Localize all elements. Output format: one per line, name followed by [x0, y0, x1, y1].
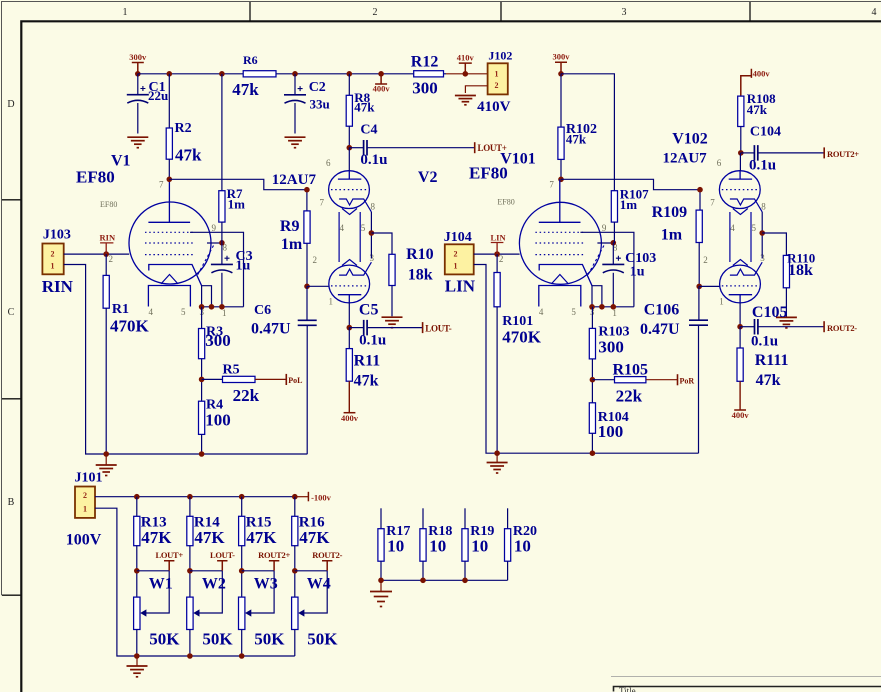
W1 wiper	[146, 571, 169, 613]
V102a plate	[729, 171, 752, 179]
node R2 top	[167, 71, 173, 77]
wire W2 to gnd bus	[189, 630, 191, 657]
V102a grid	[722, 189, 758, 191]
ground R10	[382, 317, 403, 328]
svg-text:300v: 300v	[553, 52, 571, 62]
svg-text:Title: Title	[619, 686, 636, 692]
wire V2b plate to C5 node	[348, 303, 350, 328]
V2 filament marks	[342, 209, 357, 266]
junction bus R1	[103, 451, 109, 457]
svg-text:47K: 47K	[141, 528, 172, 547]
port ROUT2- bar	[823, 321, 825, 332]
wire J103 pin2 to grid	[64, 253, 130, 255]
svg-text:1: 1	[222, 308, 227, 318]
wire R108 to C104 node	[740, 127, 742, 153]
power port 410v	[459, 63, 472, 74]
svg-text:J102: J102	[488, 49, 512, 63]
wire pin8 to pin3	[370, 212, 372, 259]
resistor R109	[696, 210, 702, 242]
wire cathode bus V1	[202, 306, 244, 308]
svg-text:2: 2	[495, 81, 499, 90]
junction gnd bus W1	[134, 653, 140, 659]
svg-text:LOUT-: LOUT-	[210, 550, 235, 560]
junction gnd bus W2	[187, 653, 193, 659]
wire stub R20	[507, 508, 509, 528]
resistor R1	[103, 275, 109, 308]
V102 filament marks	[733, 209, 748, 266]
svg-text:400v: 400v	[753, 68, 771, 78]
ground right channel	[487, 463, 508, 474]
wire C106 to bus	[698, 325, 700, 453]
svg-text:1: 1	[123, 7, 128, 18]
wire node to C5	[349, 327, 363, 329]
junction bus R104	[590, 450, 596, 456]
svg-text:R9: R9	[280, 218, 300, 235]
wire V1 pin8	[207, 242, 222, 244]
svg-text:22u: 22u	[148, 88, 168, 103]
svg-text:R11: R11	[354, 353, 381, 370]
wire plate to V102 grid	[561, 179, 700, 189]
resistor R12	[414, 71, 444, 77]
svg-text:C5: C5	[359, 302, 379, 319]
node cathodes V102	[759, 230, 765, 236]
svg-text:10: 10	[387, 537, 404, 556]
svg-text:2: 2	[499, 254, 504, 264]
node R15 top	[239, 494, 245, 500]
ruler ticks top	[250, 2, 750, 21]
resistor R107	[611, 191, 617, 222]
svg-text:400v: 400v	[732, 410, 750, 420]
junction bus pin3	[199, 304, 205, 310]
svg-text:1m: 1m	[620, 197, 638, 212]
svg-text:470K: 470K	[110, 317, 150, 336]
port LOUT+ pot	[164, 561, 174, 571]
wire J103 pin1 + bottom bus left	[64, 265, 308, 455]
svg-text:410V: 410V	[477, 99, 511, 115]
svg-text:47K: 47K	[194, 528, 225, 547]
V2a grid	[331, 189, 367, 191]
resistor R102	[558, 127, 564, 159]
tube V1 EF80 envelope	[129, 202, 211, 284]
wire R102 to plate node	[560, 159, 562, 179]
resistor R14	[187, 516, 193, 545]
wire C105 node to R111	[739, 327, 741, 348]
potentiometer W4	[292, 597, 298, 629]
stem ground left	[105, 454, 107, 465]
svg-text:7: 7	[159, 180, 164, 190]
svg-text:47k: 47k	[756, 372, 781, 389]
port ROUT2+ pot	[269, 561, 279, 571]
svg-text:W1: W1	[149, 576, 173, 593]
svg-text:22k: 22k	[616, 387, 643, 406]
node V102b grid	[696, 284, 702, 290]
wire C5 to LOUT-	[367, 327, 423, 329]
svg-text:W3: W3	[254, 576, 278, 593]
wire R3 to R4	[201, 359, 203, 402]
wire W3 to gnd bus	[241, 630, 243, 657]
resistor R15	[239, 516, 245, 545]
wire bus to R15	[241, 497, 243, 517]
resistor R13	[134, 516, 140, 545]
V102b grid	[722, 285, 758, 287]
potentiometer W1	[134, 597, 140, 629]
V1 filament caret	[161, 275, 178, 284]
svg-text:8: 8	[371, 202, 376, 212]
svg-text:12AU7: 12AU7	[663, 151, 708, 167]
node W4 top	[292, 568, 298, 574]
svg-text:LIN: LIN	[445, 277, 476, 296]
resistor R111	[737, 348, 743, 381]
wire bus to R13	[136, 497, 138, 517]
svg-text:410v: 410v	[457, 53, 475, 63]
junction bus pin1 right	[599, 304, 605, 310]
wire rail R12 right	[430, 73, 446, 75]
wire C1 to ground	[137, 103, 139, 134]
node 410v	[463, 71, 469, 77]
wire plate to V2 grid	[169, 179, 307, 189]
wire W4 to gnd bus	[294, 630, 296, 657]
node V2 grid	[304, 187, 310, 193]
node RIN	[103, 251, 109, 257]
wire rail to C2	[294, 74, 296, 95]
V101 filament caret	[551, 275, 568, 284]
resistor R19	[462, 529, 468, 562]
wire R2 to plate node	[168, 159, 170, 179]
V1 plate	[148, 179, 190, 222]
junction bus x=423	[420, 578, 426, 584]
resistor R4	[199, 401, 205, 434]
svg-text:4: 4	[872, 7, 877, 18]
tube V102a (upper triode) envelope	[719, 171, 760, 209]
svg-text:C106: C106	[644, 302, 680, 319]
resistor R17	[378, 529, 384, 562]
svg-text:47k: 47k	[566, 132, 587, 147]
node R16 top	[292, 494, 298, 500]
wire node to C4	[349, 147, 363, 149]
svg-text:C2: C2	[309, 80, 326, 95]
svg-text:18k: 18k	[408, 267, 433, 284]
svg-text:4: 4	[539, 307, 544, 317]
resistor R8	[346, 95, 352, 126]
svg-text:J104: J104	[444, 230, 472, 245]
power port 300v right	[555, 62, 567, 74]
node W2 top	[187, 568, 193, 574]
svg-text:R105: R105	[613, 362, 649, 379]
svg-text:C105: C105	[752, 304, 788, 321]
wire RIN to R1	[105, 254, 107, 275]
svg-text:1: 1	[51, 261, 55, 270]
tube V102b (lower triode) envelope	[720, 265, 761, 303]
wire rail to R7	[221, 74, 223, 191]
svg-text:0.1u: 0.1u	[359, 333, 386, 349]
V2 heater box	[339, 212, 360, 262]
svg-text:5: 5	[361, 223, 366, 233]
svg-text:4: 4	[340, 223, 345, 233]
V1 cathode pin3/1 staple	[202, 286, 212, 307]
node C104	[738, 150, 744, 156]
potentiometer W3	[239, 597, 245, 629]
svg-text:50K: 50K	[307, 630, 338, 649]
svg-text:2: 2	[109, 254, 114, 264]
svg-text:0.47U: 0.47U	[251, 321, 291, 338]
svg-text:0.1u: 0.1u	[749, 158, 776, 174]
svg-text:R1: R1	[112, 302, 129, 317]
wire C104 node to V102a plate	[739, 153, 741, 171]
power port 300v left	[132, 63, 144, 74]
svg-text:EF80: EF80	[469, 164, 508, 183]
ruler ticks left	[2, 200, 21, 595]
wire C4 node to V2a plate	[348, 148, 350, 171]
svg-text:470K: 470K	[502, 328, 542, 347]
wire bus to R16	[294, 497, 296, 517]
potentiometer W2	[187, 597, 193, 629]
node cathodes V2	[369, 230, 375, 236]
svg-text:300: 300	[598, 338, 624, 357]
wire W1 tap bus	[137, 570, 169, 572]
net label LIN	[491, 243, 504, 255]
svg-text:RIN: RIN	[42, 277, 74, 296]
V101 heater legs pins 4,5	[539, 286, 581, 307]
resistor R103	[589, 328, 595, 359]
ground C1	[127, 137, 148, 148]
V2a plate	[338, 171, 361, 179]
svg-text:7: 7	[320, 198, 325, 208]
node V2b grid	[304, 284, 310, 290]
capacitor C1	[127, 95, 149, 103]
wire C103 to bus	[612, 273, 614, 307]
svg-text:7: 7	[710, 198, 715, 208]
wire LIN to R101	[496, 254, 498, 272]
wire R105 to PoR	[646, 379, 678, 381]
svg-text:EF80: EF80	[497, 198, 514, 207]
svg-text:300: 300	[412, 79, 438, 98]
svg-text:2: 2	[454, 249, 458, 258]
wire to V2b grid	[307, 285, 329, 287]
svg-text:7: 7	[549, 180, 554, 190]
stem ground pots	[136, 656, 138, 666]
node R8 top	[347, 71, 353, 77]
svg-text:B: B	[8, 497, 15, 508]
port LOUT- bar	[422, 322, 424, 333]
connector J102	[488, 63, 508, 94]
svg-text:47K: 47K	[246, 528, 277, 547]
wire W4 tap bus	[295, 570, 327, 572]
title block	[611, 676, 881, 678]
wire R107 to pin8	[613, 222, 614, 243]
svg-text:8: 8	[761, 202, 766, 212]
node C5	[347, 325, 353, 331]
svg-text:C104: C104	[750, 125, 781, 140]
wire bus to R3	[201, 307, 203, 329]
svg-text:W4: W4	[307, 576, 331, 593]
svg-text:W2: W2	[202, 576, 226, 593]
wire R10 to ground	[391, 286, 393, 317]
svg-text:3: 3	[622, 7, 627, 18]
resistor R18	[420, 529, 426, 562]
node C4	[347, 145, 353, 151]
capacitor C3	[211, 264, 233, 272]
wire to J102 pin1	[446, 73, 488, 75]
svg-text:4: 4	[149, 307, 154, 317]
wire rail to R102	[560, 74, 562, 127]
tube V2b (lower triode) envelope	[329, 265, 370, 303]
V1 heater legs pins 4,5	[148, 286, 190, 307]
wire pin8 to pin3 right	[761, 212, 763, 259]
svg-text:2: 2	[313, 255, 318, 265]
wire bus to R103	[591, 307, 593, 329]
wire R110 to ground	[785, 288, 787, 317]
stem ground R17	[380, 580, 382, 591]
resistor R2	[166, 128, 172, 159]
wire C5 node to R11	[348, 328, 350, 349]
svg-text:5: 5	[752, 223, 757, 233]
svg-text:R111: R111	[755, 352, 789, 369]
connector J101	[75, 487, 95, 518]
node W3 top	[239, 568, 245, 574]
wire cathode bus V101	[592, 306, 634, 308]
svg-text:2: 2	[51, 249, 55, 258]
junction bus C3	[219, 304, 225, 310]
port ROUT2- pot	[322, 561, 332, 571]
power port 400v top right	[741, 69, 752, 96]
junction bus pin3 right	[589, 304, 595, 310]
wire R8 to C4 node	[348, 126, 350, 148]
svg-text:LIN: LIN	[491, 232, 507, 242]
resistor R105	[615, 377, 646, 383]
resistor R6	[243, 71, 276, 77]
resistor R110	[783, 255, 789, 287]
ground C2	[285, 137, 306, 148]
svg-text:33u: 33u	[310, 97, 330, 112]
wire R9 to C6 node	[306, 243, 308, 286]
wire grid node to R109	[699, 190, 701, 210]
svg-text:R2: R2	[175, 121, 192, 136]
port PoR bar	[677, 374, 679, 385]
power port -100v	[307, 492, 309, 502]
svg-text:47k: 47k	[354, 373, 379, 390]
V1 grids (dotted)	[145, 232, 193, 254]
wire bus to R14	[189, 497, 191, 517]
svg-text:0.1u: 0.1u	[360, 152, 387, 168]
V101 plate	[539, 179, 581, 222]
svg-text:1u: 1u	[236, 259, 251, 274]
svg-text:R12: R12	[411, 54, 439, 71]
wire J104 pin2 to grid	[474, 253, 520, 255]
svg-text:-100v: -100v	[311, 492, 332, 502]
svg-text:10: 10	[471, 537, 488, 556]
junction bus R4	[199, 451, 205, 457]
svg-text:PoR: PoR	[680, 377, 695, 386]
connector J104	[445, 244, 474, 274]
port LOUT+ bar	[474, 142, 476, 153]
port PoL bar	[285, 374, 287, 385]
ground pots	[127, 666, 148, 677]
svg-text:2: 2	[83, 491, 87, 500]
wire R7 to pin8	[221, 222, 223, 243]
wire R5 to PoL	[255, 378, 286, 380]
svg-text:50K: 50K	[202, 630, 233, 649]
V102b plate	[729, 295, 752, 303]
resistor R108	[738, 96, 744, 126]
V101 cathode pin3/1 staple	[592, 286, 602, 307]
resistor R7	[219, 191, 225, 222]
V1 grid3 tie (dashed diagonal)	[197, 246, 214, 277]
V101 grids (dotted)	[535, 232, 583, 254]
wire J102 pin2 to ground	[465, 86, 487, 93]
node R13 top	[134, 494, 140, 500]
tube V101 EF80 envelope	[519, 202, 601, 284]
wire R19 to bus	[464, 561, 466, 580]
wire node to C105	[740, 326, 754, 328]
svg-text:22k: 22k	[233, 386, 260, 405]
svg-text:1: 1	[495, 69, 499, 78]
power port 400v mid	[375, 74, 387, 84]
V102 heater box	[730, 212, 751, 262]
wire R20 to bus	[507, 561, 509, 580]
W3 wiper	[251, 571, 274, 613]
wire W2 tap bus	[190, 570, 222, 572]
wire stub R18	[422, 508, 424, 528]
capacitor C6	[298, 320, 317, 325]
svg-text:300: 300	[205, 331, 231, 350]
W2 wiper	[199, 571, 222, 613]
node V102 grid	[697, 187, 703, 193]
svg-text:100V: 100V	[66, 532, 102, 549]
wire R14 to W2	[189, 546, 191, 597]
V101 cathode	[539, 265, 592, 286]
resistor R3	[199, 329, 205, 359]
resistor R20	[505, 529, 511, 562]
junction bus R101	[494, 450, 500, 456]
ground J102	[455, 96, 476, 105]
wire to R105	[592, 379, 614, 381]
stem ground right	[496, 453, 498, 462]
junction bus x=465	[462, 578, 468, 584]
node R7 top	[219, 71, 225, 77]
svg-text:ROUT2+: ROUT2+	[827, 149, 859, 159]
wire C6 to bus	[306, 325, 308, 454]
wire C104 to ROUT2+	[758, 152, 824, 154]
svg-text:D: D	[7, 99, 14, 110]
svg-text:18k: 18k	[788, 262, 813, 279]
wire V101 pin9 down	[580, 232, 634, 306]
svg-text:12AU7: 12AU7	[272, 172, 317, 188]
wire R4 to bus	[201, 434, 203, 454]
wire node to C6	[306, 286, 308, 320]
svg-text:LOUT-: LOUT-	[425, 323, 451, 333]
resistor R11	[346, 349, 352, 382]
resistor R9	[304, 211, 310, 243]
wire R17 to bus	[380, 561, 382, 580]
V101 grid3 tie (dashed diagonal)	[587, 246, 604, 277]
wire rail to R8	[348, 74, 350, 96]
resistor R104	[589, 403, 595, 434]
svg-text:PoL: PoL	[288, 376, 302, 385]
svg-text:0.47U: 0.47U	[640, 321, 680, 338]
wire V101 pin8	[597, 242, 613, 244]
svg-text:R5: R5	[223, 363, 240, 378]
W4 wiper	[304, 571, 327, 613]
svg-text:400v: 400v	[341, 413, 359, 423]
V2a cathode	[339, 199, 371, 212]
node pin8/R107/C103	[611, 240, 617, 246]
wire C4 to LOUT+	[367, 147, 475, 149]
wire to V102b grid	[699, 285, 720, 287]
svg-text:ROUT2+: ROUT2+	[258, 550, 290, 560]
wire R17-R20 bus	[381, 579, 508, 581]
node R14 top	[187, 494, 193, 500]
wire R18 to bus	[422, 561, 424, 580]
